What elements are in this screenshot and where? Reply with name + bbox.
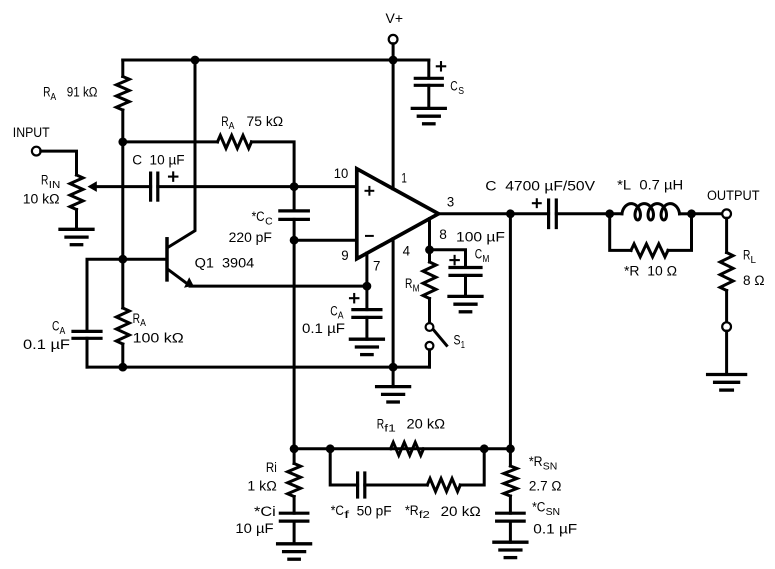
wire Csn to ground bbox=[509, 521, 512, 542]
wire RA2 left lead bbox=[123, 140, 218, 143]
junction +input / RA2 bbox=[290, 182, 299, 191]
wire Cs to ground bbox=[427, 85, 430, 108]
label CSN value bbox=[533, 521, 577, 537]
label S1 bbox=[454, 333, 466, 351]
junction fb row cf bbox=[326, 444, 335, 453]
capacitor CS bbox=[415, 78, 442, 85]
capacitor CS plus bbox=[437, 62, 445, 70]
label OUTPUT bbox=[707, 188, 760, 204]
capacitor CSN 0.1uF bbox=[497, 513, 525, 521]
label R10 bbox=[624, 264, 677, 280]
svg-text:R: R bbox=[743, 248, 750, 264]
inductor L 0.7uH bbox=[622, 204, 680, 220]
label CA left bbox=[52, 319, 65, 337]
svg-text:R: R bbox=[221, 114, 228, 130]
junction fb row rf2 bbox=[480, 444, 489, 453]
wire top supply rail bbox=[123, 59, 429, 62]
svg-text:R: R bbox=[41, 173, 48, 189]
wire pin 8 bbox=[428, 219, 431, 250]
svg-text:A: A bbox=[60, 326, 66, 337]
svg-text:C: C bbox=[475, 247, 482, 263]
svg-text:S: S bbox=[454, 333, 461, 349]
ground Cs bbox=[412, 108, 445, 123]
wire -input pin9 bbox=[294, 239, 356, 242]
wire CA right to ground bbox=[365, 317, 368, 339]
svg-text:OUTPUT: OUTPUT bbox=[707, 188, 760, 204]
wire CM to ground bbox=[464, 275, 467, 296]
resistor RL 8 bbox=[720, 253, 733, 291]
svg-text:A: A bbox=[50, 92, 56, 103]
label CA right value bbox=[302, 321, 345, 337]
svg-text:1: 1 bbox=[461, 340, 465, 351]
svg-text:M: M bbox=[482, 254, 489, 265]
wire to output term bbox=[692, 212, 723, 215]
switch S1 bbox=[426, 323, 447, 350]
wire RM top lead bbox=[428, 250, 431, 262]
wire rf2 right bbox=[460, 449, 484, 485]
svg-text:R: R bbox=[377, 416, 384, 432]
label CM value bbox=[456, 229, 505, 245]
resistor Rf2 20k bbox=[427, 479, 460, 492]
label RSN value bbox=[529, 478, 562, 494]
svg-text:0.1 µF: 0.1 µF bbox=[302, 321, 345, 337]
svg-text:V+: V+ bbox=[386, 11, 404, 27]
capacitor Ci 10uF bbox=[280, 513, 308, 521]
junction RA3 / rail bbox=[118, 363, 127, 372]
junction base node bbox=[118, 255, 127, 264]
wire V+ to top rail bbox=[392, 44, 395, 60]
ground CSN bbox=[494, 542, 527, 557]
capacitor C plus bbox=[169, 172, 177, 180]
wire Ci to ground bbox=[293, 521, 296, 544]
label pin 3 bbox=[447, 194, 454, 210]
wire Q1 collector bbox=[168, 60, 195, 247]
resistor RA3 100k bbox=[116, 308, 129, 344]
svg-text:R: R bbox=[43, 85, 50, 101]
svg-text:220 pF: 220 pF bbox=[229, 230, 273, 246]
capacitor CA right plus bbox=[350, 294, 358, 302]
svg-text:M: M bbox=[413, 283, 420, 294]
wire CA left to rail bbox=[86, 338, 89, 367]
terminal RL bottom bbox=[722, 322, 731, 331]
capacitor CA left 0.1uF bbox=[73, 331, 101, 338]
wire Cs lead bbox=[427, 60, 430, 78]
junction RA1 / RA2 node bbox=[118, 138, 127, 147]
svg-text:A: A bbox=[338, 311, 344, 322]
wire Q1 base bbox=[123, 258, 165, 261]
junction top rail / Q1 collector bbox=[191, 56, 200, 65]
wire pin 7 bbox=[365, 253, 368, 286]
svg-text:SN: SN bbox=[546, 507, 561, 518]
label Cf bbox=[331, 503, 350, 521]
ground CA right bbox=[350, 339, 383, 354]
wire CC top lead bbox=[293, 187, 296, 211]
svg-text:C 4700 µF/50V: C 4700 µF/50V bbox=[485, 178, 595, 194]
svg-text:8 Ω: 8 Ω bbox=[743, 273, 765, 289]
wire cf to rf2 bbox=[365, 484, 428, 487]
wiper arrow RIN bbox=[88, 181, 97, 192]
label pin 9 bbox=[341, 248, 349, 264]
svg-text:100 kΩ: 100 kΩ bbox=[133, 331, 184, 347]
wire switch to rail bbox=[428, 350, 431, 367]
svg-text:10 µF: 10 µF bbox=[235, 521, 274, 537]
wire cf branch left bbox=[330, 449, 357, 485]
wire pin8 to CM bbox=[430, 250, 466, 268]
resistor RA1 91k bbox=[116, 77, 129, 111]
wire input to pot bbox=[41, 151, 77, 175]
wire L right lead bbox=[680, 212, 692, 215]
label CM bbox=[475, 247, 490, 265]
label Cf value bbox=[357, 504, 392, 520]
svg-text:*L 0.7 µH: *L 0.7 µH bbox=[617, 178, 683, 194]
svg-text:*Ci: *Ci bbox=[254, 504, 276, 520]
label RL bbox=[743, 248, 756, 266]
svg-text:0.1 µF: 0.1 µF bbox=[23, 337, 70, 353]
svg-text:91 kΩ: 91 kΩ bbox=[67, 85, 98, 101]
label C4700 bbox=[485, 178, 595, 194]
label Q1 bbox=[195, 256, 255, 272]
svg-text:Q1 3904: Q1 3904 bbox=[195, 256, 255, 272]
terminal V+ bbox=[389, 35, 398, 44]
wire R10 right bbox=[668, 214, 692, 251]
wire pot to ground bbox=[75, 210, 78, 230]
label Ci bbox=[254, 504, 276, 520]
label L bbox=[617, 178, 683, 194]
wire Q1 emitter bbox=[168, 270, 188, 285]
wire Ri top lead bbox=[293, 449, 296, 464]
svg-text:f1: f1 bbox=[384, 424, 396, 435]
svg-text:50 pF: 50 pF bbox=[357, 504, 392, 520]
label Ri value bbox=[247, 479, 276, 495]
label Ci value bbox=[235, 521, 274, 537]
svg-text:L: L bbox=[751, 255, 757, 266]
ground RL bbox=[708, 375, 746, 391]
wire base node to CA left bbox=[87, 259, 123, 331]
label CS bbox=[450, 79, 464, 97]
capacitor CC 220pF bbox=[280, 211, 309, 220]
resistor RA2 75k bbox=[218, 135, 252, 148]
svg-text:R: R bbox=[405, 276, 412, 292]
svg-text:10 kΩ: 10 kΩ bbox=[23, 192, 60, 208]
junction fb row right bbox=[506, 444, 515, 453]
ground CM bbox=[449, 296, 482, 311]
resistor Rf1 20k bbox=[391, 442, 424, 455]
svg-text:1 kΩ: 1 kΩ bbox=[247, 479, 276, 495]
svg-text:10: 10 bbox=[334, 166, 349, 182]
svg-text:8: 8 bbox=[439, 227, 447, 243]
svg-text:C 10 µF: C 10 µF bbox=[132, 153, 185, 169]
capacitor C 10uF bbox=[151, 173, 158, 200]
wire C to +input pin10 bbox=[158, 185, 357, 188]
svg-text:20 kΩ: 20 kΩ bbox=[441, 504, 481, 520]
transistor Q1 base bar bbox=[165, 239, 169, 280]
label pin 7 bbox=[373, 259, 381, 275]
label RA1 bbox=[43, 85, 97, 103]
label RA2 bbox=[221, 114, 283, 132]
capacitor CA right 0.1uF bbox=[353, 310, 381, 318]
label CC value bbox=[229, 230, 273, 246]
svg-text:75 kΩ: 75 kΩ bbox=[247, 114, 284, 130]
label pin 10 bbox=[334, 166, 349, 182]
svg-text:20 kΩ: 20 kΩ bbox=[407, 416, 446, 432]
wire Rsn to Csn bbox=[509, 496, 512, 513]
label RM bbox=[405, 276, 420, 294]
wire feedback row bbox=[294, 447, 510, 450]
wire RA1 top lead bbox=[121, 60, 124, 77]
terminal OUTPUT bbox=[722, 209, 731, 218]
label RA3 value bbox=[133, 331, 184, 347]
wire pin7 to CA bbox=[365, 286, 368, 310]
wire RA1 bottom lead bbox=[121, 110, 124, 142]
wire Rsn top lead bbox=[509, 449, 512, 466]
junction output / feedback bbox=[506, 209, 515, 218]
svg-text:1: 1 bbox=[401, 171, 407, 187]
svg-text:7: 7 bbox=[373, 259, 381, 275]
label V+ bbox=[386, 11, 404, 27]
svg-text:3: 3 bbox=[447, 194, 454, 210]
junction L left bbox=[605, 209, 614, 218]
svg-text:*R: *R bbox=[405, 503, 419, 519]
label RA3 bbox=[133, 311, 146, 329]
wire CC bottom lead bbox=[293, 219, 296, 240]
capacitor Cf 50pF bbox=[358, 473, 365, 497]
label Ri bbox=[266, 460, 277, 476]
wire pin 1 to V+ bbox=[392, 60, 395, 189]
resistor Ri 1k bbox=[288, 464, 301, 497]
wire wiper to C bbox=[97, 185, 151, 188]
terminal INPUT bbox=[32, 147, 41, 156]
arrow Q1 emitter bbox=[184, 277, 194, 288]
label RSN bbox=[529, 454, 557, 472]
svg-text:f: f bbox=[344, 510, 349, 521]
junction pin8 node bbox=[425, 245, 434, 254]
svg-text:IN: IN bbox=[49, 180, 61, 191]
wire Ri to Ci bbox=[293, 497, 296, 514]
wire RL term to ground bbox=[725, 331, 728, 374]
label RL value bbox=[743, 273, 765, 289]
wire RA3 top lead bbox=[121, 259, 124, 308]
wire emitter to pin7 node bbox=[190, 285, 367, 288]
wire pin 4 to ground rail bbox=[392, 239, 395, 367]
svg-text:4: 4 bbox=[403, 244, 411, 260]
svg-text:C: C bbox=[450, 79, 457, 95]
wire CC node to feedback row bbox=[293, 240, 296, 449]
junction top rail / pin 1 bbox=[389, 56, 398, 65]
svg-text:*C: *C bbox=[252, 209, 265, 225]
svg-text:C: C bbox=[330, 303, 337, 319]
svg-text:9: 9 bbox=[341, 248, 349, 264]
svg-text:2.7 Ω: 2.7 Ω bbox=[529, 478, 562, 494]
potentiometer RIN 10k bbox=[70, 175, 83, 210]
wire C4700 to L bbox=[556, 212, 622, 215]
label C 10uF bbox=[132, 153, 185, 169]
label CA right bbox=[330, 303, 343, 321]
label Rf2 bbox=[405, 503, 430, 521]
op-amp U1 bbox=[357, 169, 439, 259]
svg-text:*C: *C bbox=[331, 503, 344, 519]
label INPUT bbox=[13, 125, 50, 141]
wire pin3 output bbox=[439, 212, 549, 215]
capacitor CM plus bbox=[450, 256, 458, 264]
label CC bbox=[252, 209, 274, 227]
wire RM to switch bbox=[428, 299, 431, 324]
svg-text:0.1 µF: 0.1 µF bbox=[533, 521, 577, 537]
label pin 8 bbox=[439, 227, 447, 243]
junction rail / pin4 bbox=[389, 363, 398, 372]
wire ground rail bbox=[87, 366, 430, 369]
wire RA3 bottom lead bbox=[121, 344, 124, 367]
resistor R 10 bbox=[631, 244, 668, 257]
label RIN bbox=[41, 173, 60, 191]
label pin 1 bbox=[401, 171, 407, 187]
ground Ci bbox=[278, 544, 311, 559]
junction L right bbox=[687, 209, 696, 218]
svg-text:A: A bbox=[140, 318, 146, 329]
svg-text:100 µF: 100 µF bbox=[456, 229, 505, 245]
svg-text:*R 10 Ω: *R 10 Ω bbox=[624, 264, 677, 280]
wire R10 left bbox=[610, 214, 631, 251]
junction pin7 / emitter bbox=[363, 282, 372, 291]
svg-text:*C: *C bbox=[532, 500, 545, 516]
svg-text:f2: f2 bbox=[419, 510, 430, 521]
resistor RM bbox=[423, 262, 436, 299]
ground main bbox=[377, 387, 410, 402]
capacitor C4700 plus bbox=[533, 199, 541, 207]
capacitor CM 100uF bbox=[450, 268, 481, 276]
wire rail ground stub bbox=[392, 367, 395, 387]
svg-text:INPUT: INPUT bbox=[13, 125, 50, 141]
capacitor C 4700uF bbox=[549, 200, 557, 228]
label Rf2 value bbox=[441, 504, 481, 520]
svg-text:SN: SN bbox=[543, 461, 558, 472]
wire RA2 right lead bbox=[252, 142, 295, 187]
label Rf1 bbox=[377, 416, 445, 434]
svg-text:S: S bbox=[458, 86, 464, 97]
label CA left value bbox=[23, 337, 70, 353]
resistor RSN 2.7 bbox=[504, 466, 517, 496]
svg-text:*R: *R bbox=[529, 454, 543, 470]
wire node A to base bbox=[121, 142, 124, 259]
junction fb row left bbox=[290, 444, 299, 453]
svg-text:Ri: Ri bbox=[266, 460, 277, 476]
svg-text:C: C bbox=[265, 216, 273, 227]
svg-text:A: A bbox=[229, 121, 235, 132]
wire RL top lead bbox=[725, 218, 728, 252]
svg-text:C: C bbox=[52, 319, 59, 335]
wire RL bottom lead bbox=[725, 291, 728, 323]
label pin 4 bbox=[403, 244, 411, 260]
label RIN value bbox=[23, 192, 60, 208]
svg-text:R: R bbox=[133, 311, 140, 327]
ground RIN bbox=[60, 229, 93, 244]
wire output to feedback row bbox=[509, 214, 512, 449]
junction -input / CC bbox=[290, 236, 299, 245]
label CSN bbox=[532, 500, 560, 518]
